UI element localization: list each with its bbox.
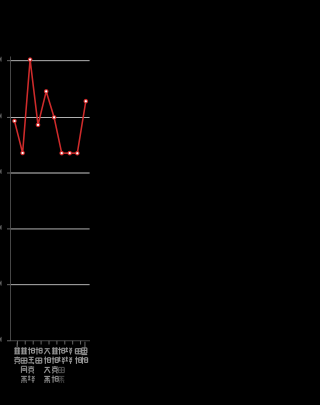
marker P1 [13,119,16,122]
x tick 9 [80,341,82,345]
y tick label 4 (clipped digit) [0,114,2,119]
x tick 5 [48,341,50,345]
x tick 8 [72,341,74,345]
x label 2 (shui-mian-wen-ti) [21,347,27,382]
y tick label 1 (clipped digit) [0,281,2,286]
gridline value 4 [11,116,90,118]
data line (red series) [15,60,86,154]
x label 5 (ren-ji-guan-xi) [44,349,51,383]
gridline value 5 [11,60,90,62]
x label 6 (jing-shen-bing-xing) [52,347,59,382]
gridline value 1 [11,284,90,286]
x tick 7 [64,341,66,345]
x label 8 (di-dui) [65,347,72,364]
marker P2 [21,151,24,154]
marker P7 [60,151,63,154]
marker P9 [76,152,79,155]
gridline value 3 [11,172,90,174]
marker P6 [52,116,55,119]
x tick 3 [32,341,34,345]
x tick 1 [16,341,18,345]
x label 4 (yi-yu) [36,347,43,363]
marker P8 [68,151,71,154]
y tick label 3 (clipped digit) [0,169,2,174]
y tick label 5 (clipped digit) [0,57,2,62]
y tick 4 [7,116,11,118]
x tick 6 [56,341,58,345]
x label 3 (qiang-po-zheng-zhuang) [28,347,35,382]
x label 10 (qi-ta) [81,348,88,364]
marker P3 [28,58,31,61]
marker P4 [36,123,39,126]
x tick 4 [40,341,42,345]
gridline value 2 [11,228,90,230]
marker P5 [45,90,48,93]
x label 1 (jiao-lv) [14,347,20,364]
y tick 3 [7,172,11,174]
x label 1 ascender stroke [16,343,18,348]
y tick label 0 (clipped digit) [0,337,2,342]
x label 10 ascender stroke [84,342,86,348]
bottom spine [11,340,91,342]
chart background [0,0,100,400]
x label 9 (kong-bu) [75,349,82,364]
y tick label 2 (clipped digit) [0,225,2,230]
marker P10 [84,100,87,103]
x label 7 (pian-zhi-yi-nian) [58,347,65,382]
y tick 1 [7,284,11,286]
y tick 5 [7,60,11,62]
y tick 2 [7,228,11,230]
x tick 2 [24,341,26,345]
y tick 0 [7,340,11,342]
left spine [10,57,12,341]
